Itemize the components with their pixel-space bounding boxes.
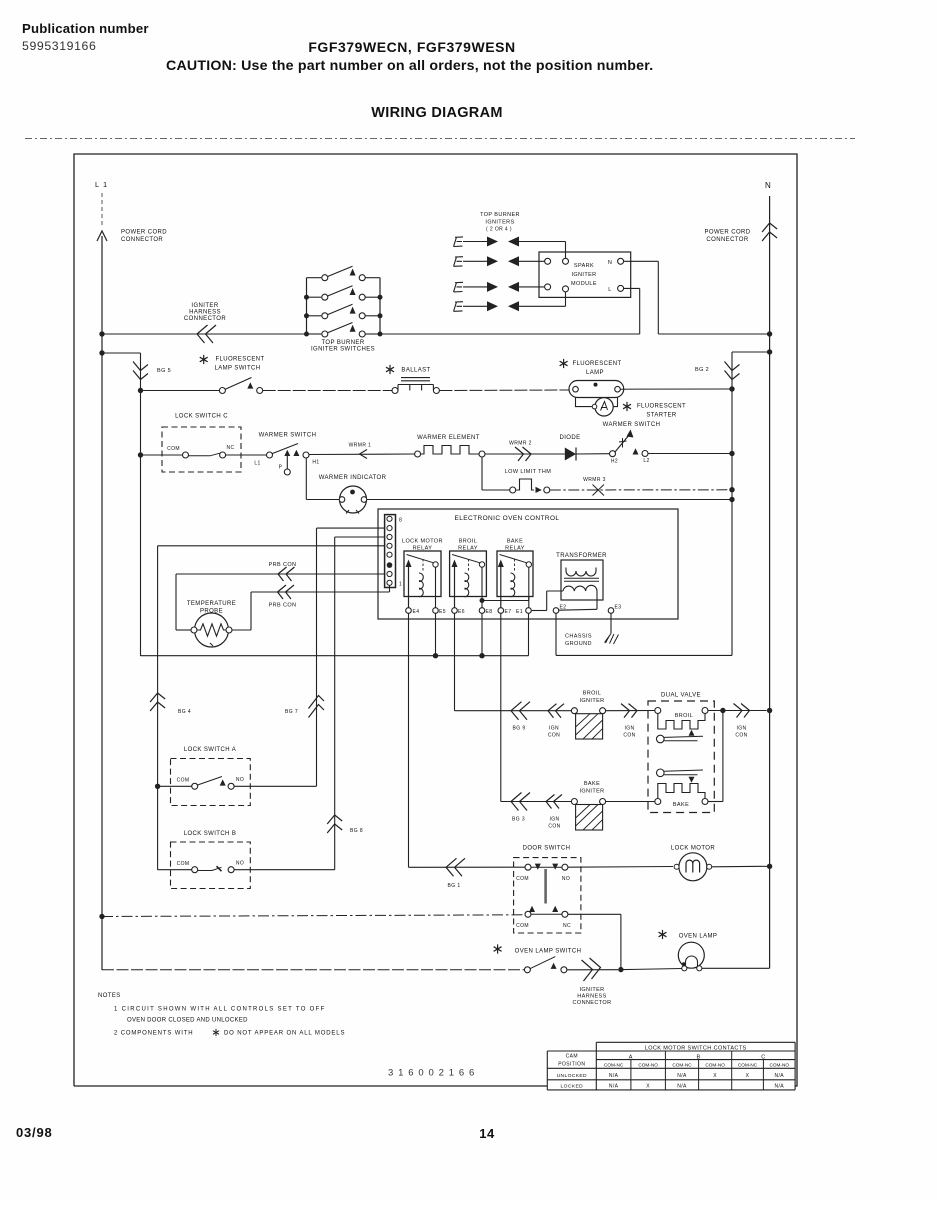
svg-text:03/98: 03/98 [16,1125,53,1140]
wire L1 drop dashed [101,193,103,228]
svg-text:DUAL VALVE: DUAL VALVE [661,693,701,699]
wire rail to lock switch A COM [158,785,192,787]
wire transformer to E2 [596,591,598,609]
svg-text:WRMR 3: WRMR 3 [583,477,606,483]
lock switch A dashed box [171,759,251,806]
svg-text:POSITION: POSITION [558,1062,585,1068]
svg-text:BG 7: BG 7 [285,709,298,715]
svg-text:COM: COM [516,923,529,929]
svg-text:TEMPERATURE: TEMPERATURE [187,601,236,607]
terminal E4 [406,608,412,614]
svg-text:WARMER ELEMENT: WARMER ELEMENT [417,435,480,441]
wire L1 to door switch lower COM [102,915,525,917]
wire N vertical rail [769,196,771,968]
svg-text:P: P [279,465,283,471]
junction N x lock motor line [767,864,772,869]
wire ballast to fluorescent lamp [439,389,572,392]
svg-text:Publication number: Publication number [22,21,149,36]
svg-text:N/A: N/A [609,1084,619,1090]
wire diode to H2 [576,453,610,455]
svg-text:H1: H1 [312,460,319,466]
svg-text:TRANSFORMER: TRANSFORMER [556,553,607,559]
bake igniter element [571,799,605,831]
wire junction to oven lamp [624,969,682,970]
connector PRB CON 1 chevrons [278,567,295,581]
svg-text:OVEN LAMP: OVEN LAMP [679,934,718,940]
connector BG7 chevrons [309,696,325,718]
fluorescent starter loop [576,398,618,407]
wire BG5 vertical to lock switch C COM [141,454,183,456]
svg-text:E1: E1 [516,609,523,615]
wire door switch NO to lock motor [568,866,673,869]
junction N x broil valve line [767,708,772,713]
wire lock switch B NO to BG8 drop [234,869,335,871]
svg-text:LOCK MOTOR: LOCK MOTOR [402,539,443,545]
oven lamp asterisk [659,930,667,939]
igniter harness connector (top) chevrons [197,325,216,343]
fluorescent starter asterisk [623,402,631,411]
connector PRB CON 2 chevrons [278,585,295,599]
warmer switch L1 P H1 [254,444,319,476]
svg-text:CON: CON [623,733,635,739]
wire E7 to bake igniter line [500,613,502,801]
igniter electrode 2 [454,257,464,267]
wire broil igniter to valve [606,710,655,712]
connector IGN CON broil-right chevrons [621,704,637,718]
svg-text:E5: E5 [439,609,446,615]
door switch dashed box [514,858,581,933]
svg-text:WARMER INDICATOR: WARMER INDICATOR [319,475,387,481]
motor lock motor [674,853,712,881]
wire main line L1 to switch bank [102,333,307,335]
connector IGN CON right chevrons [734,704,750,718]
junction L1 x main line [99,331,104,336]
wire H1 down to warmer indicator [305,458,307,500]
svg-text:COM-NO: COM-NO [705,1063,725,1068]
svg-text:BG 1: BG 1 [448,883,461,889]
svg-text:IGNITER SWITCHES: IGNITER SWITCHES [311,347,375,353]
junction BG2 x lamp line [729,386,734,391]
svg-text:H2: H2 [611,459,618,465]
svg-text:BROIL: BROIL [459,539,478,545]
igniter harness connector (bottom) chevrons [582,958,601,981]
igniter electrode 3 [454,282,464,292]
svg-text:OVEN DOOR CLOSED AND UNLOCKED: OVEN DOOR CLOSED AND UNLOCKED [127,1018,248,1024]
module terminal row4 inner [563,286,569,292]
svg-text:IGNITER: IGNITER [579,789,604,795]
module terminal row2 edge [545,258,551,264]
wire rail corner to lock switch B COM [158,869,192,871]
svg-text:L1: L1 [254,461,260,467]
spark igniter module box [539,252,631,297]
svg-text:IGN: IGN [549,817,559,823]
connector IGN CON broil-left chevrons [548,704,564,718]
svg-text:LOCKED: LOCKED [561,1084,584,1090]
svg-text:FLUORESCENT: FLUORESCENT [572,361,621,367]
svg-text:LOCK MOTOR SWITCH CONTACTS: LOCK MOTOR SWITCH CONTACTS [645,1045,747,1051]
door switch lower pole [516,906,571,929]
WRMR3 splice X mark [593,485,605,496]
svg-text:COM-NC: COM-NC [604,1063,624,1068]
lock switch B [177,861,245,873]
svg-text:BG 9: BG 9 [513,726,526,732]
wire module N to main line [624,260,659,262]
wire bake contact to E8 tie [482,600,529,602]
top burner igniter switch 4 [307,323,381,338]
svg-text:COM: COM [177,778,190,784]
lock switch A [177,777,245,790]
svg-text:BG 5: BG 5 [157,368,171,374]
svg-text:3 1 6 0 0 2 1 6 6: 3 1 6 0 0 2 1 6 6 [388,1068,475,1079]
svg-text:N/A: N/A [774,1073,784,1079]
wire E1 to transformer primary [531,610,546,612]
fluorescent lamp pin dot [594,383,598,387]
connector BG3 chevrons [511,793,530,811]
chassis ground symbol [605,634,619,645]
svg-text:E4: E4 [413,609,420,615]
svg-text:BALLAST: BALLAST [401,368,430,374]
svg-text:CAUTION: Use the part number: CAUTION: Use the part number on all orde… [166,58,653,74]
wire L2 to BG2 vertical [648,453,732,455]
junction switch bank rail [304,313,309,318]
svg-text:N/A: N/A [774,1084,784,1090]
terminal E3 [608,608,614,614]
svg-text:NO: NO [236,777,244,783]
svg-text:WARMER SWITCH: WARMER SWITCH [259,433,317,439]
junction E5 x bus [433,653,438,658]
wire igniter row3 to module terminal [519,286,544,288]
wire warmer element to diode WRMR2 [485,453,565,455]
igniter electrode 4 [454,302,464,312]
broil valve plunger [657,735,704,743]
wire igniter row2 to module terminal [519,260,544,262]
fluorescent starter [595,398,613,416]
lamp oven lamp [678,942,704,971]
broil valve actuator arrow [689,730,695,736]
svg-text:14: 14 [479,1126,495,1141]
diagram border frame [74,154,797,1086]
svg-text:HARNESS: HARNESS [189,310,221,316]
bake valve terminals [655,799,661,805]
svg-text:BG 2: BG 2 [695,367,709,373]
EOC connector pin 1 [387,580,392,585]
wire oven lamp to N rail end [702,967,770,969]
junction E8 x bus [479,653,484,658]
svg-text:NC: NC [226,445,234,451]
wire broil valve to N with IGN CON [708,710,767,712]
svg-text:NO: NO [562,876,570,882]
svg-text:1: 1 [399,582,402,588]
igniter electrode 1 [454,237,464,247]
svg-text:TOP BURNER: TOP BURNER [480,212,520,218]
spark gap 4 [463,301,519,311]
connector BG5 chevrons [133,362,148,380]
svg-text:BAKE: BAKE [673,802,689,808]
relay lock motor K1 box [404,551,441,597]
transformer windings [566,568,596,577]
svg-text:DIODE: DIODE [559,435,580,441]
svg-text:E8: E8 [486,609,493,615]
wire E1 down to bus end [528,613,530,655]
svg-text:HARNESS: HARNESS [577,994,606,1000]
terminal E6 [452,608,458,614]
svg-text:WIRING DIAGRAM: WIRING DIAGRAM [371,105,502,121]
svg-text:CONNECTOR: CONNECTOR [184,316,226,322]
EOC connector pin 5 [387,543,392,548]
wire pin6 to BG8 drop [335,536,385,538]
svg-text:CONNECTOR: CONNECTOR [573,1000,612,1006]
svg-text:DO NOT APPEAR ON ALL MODELS: DO NOT APPEAR ON ALL MODELS [224,1031,345,1037]
svg-text:X: X [646,1084,650,1090]
junction valve tie [720,708,725,713]
junction broil/bake contact tie [480,598,485,603]
svg-text:COM: COM [177,861,190,867]
wire pin7 to BG7 drop [317,527,385,529]
wire module L to main line [624,287,640,289]
spark gap 1 [463,237,519,247]
wire E7 corner to bake circuit [501,801,572,803]
wire E6 corner to broil circuit [455,710,572,712]
svg-text:IGNITER: IGNITER [579,987,604,993]
svg-text:N/A: N/A [609,1073,619,1079]
ballast asterisk [386,365,394,374]
svg-text:LAMP SWITCH: LAMP SWITCH [215,366,261,372]
svg-text:COM-NC: COM-NC [738,1063,758,1068]
electronic oven control box [378,509,678,619]
junction BG5 x lamp switch line [138,388,143,393]
wire N to BG2 drop [732,351,770,353]
relay bake K3 box [497,551,533,597]
terminal E5 [433,608,439,614]
svg-text:LOW LIMIT THM: LOW LIMIT THM [505,469,552,475]
svg-text:SPARK: SPARK [574,263,594,269]
top burner igniter switch 2 [307,286,381,301]
svg-text:COM-NO: COM-NO [769,1063,789,1068]
junction lock rail x switch A [155,784,160,789]
wire E2 to BG2 vertical via bottom [555,613,557,655]
warmer switch H2 L2 [610,430,650,465]
wire bake valve up to broil line [708,801,723,803]
svg-text:PRB CON: PRB CON [269,603,297,609]
solenoid bake valve coil [658,784,705,799]
svg-text:IGN: IGN [549,726,559,732]
svg-text:PRB CON: PRB CON [269,562,297,568]
broil igniter element [571,708,605,739]
transformer box [561,560,603,600]
svg-text:FLUORESCENT: FLUORESCENT [215,357,264,363]
svg-text:OVEN LAMP SWITCH: OVEN LAMP SWITCH [515,949,582,955]
lock switch B dashed box [171,842,251,889]
junction BG2 x warmer indicator line [729,497,734,502]
door switch upper pole [516,864,570,882]
wire E3 to chassis ground [610,613,612,633]
terminal E7 [498,608,504,614]
relay broil K2 contacts and coil [452,555,485,608]
svg-text:A: A [629,1054,633,1060]
wire lamp to BG2 vertical [620,388,732,390]
svg-text:COM: COM [516,876,529,882]
connector BG9 chevrons [511,702,530,720]
power cord connector (L1) arrow [97,231,107,241]
module terminal row3 edge [545,284,551,290]
junction BG2 x WRMR3 line [729,487,734,492]
connector BG8 chevrons [327,815,342,833]
svg-text:FLUORESCENT: FLUORESCENT [637,404,686,410]
bus wire y=655.7 [141,655,529,657]
svg-text:ELECTRONIC OVEN CONTROL: ELECTRONIC OVEN CONTROL [455,515,560,522]
fluorescent lamp terminals [573,386,579,392]
svg-text:LOCK SWITCH C: LOCK SWITCH C [175,414,228,420]
svg-text:5995319166: 5995319166 [22,39,96,53]
relay bake K3 contacts and coil [498,555,532,608]
svg-text:NOTES: NOTES [98,993,121,999]
wire spark module N corner to N rail [658,333,769,335]
connector BG4 chevrons [150,693,165,711]
svg-text:CONNECTOR: CONNECTOR [121,237,163,243]
inductor ballast [392,378,439,394]
svg-text:N: N [608,260,612,266]
svg-text:NO: NO [236,861,244,867]
relay lock motor K1 contacts and coil [406,555,439,608]
solenoid broil valve coil [658,714,705,730]
oven lamp switch asterisk [494,944,502,953]
svg-text:FGF379WECN, FGF379WESN: FGF379WECN, FGF379WESN [308,39,515,55]
EOC connector strip [385,515,396,588]
resistor warmer element [415,446,485,458]
EOC connector pin 4 [387,552,392,557]
wire low limit to BG2 vertical WRMR3 [550,489,732,491]
terminal E8 [479,608,485,614]
wire igniter row4 to module bottom terminal [519,305,566,307]
svg-text:( 2 OR 4 ): ( 2 OR 4 ) [486,227,512,233]
wire switch to junction [567,969,618,971]
wire lock switch C NC to warmer switch L1 [226,454,267,456]
wire L1 vertical rail [101,236,103,970]
svg-text:IGNITERS: IGNITERS [485,220,514,226]
wire lamp switch to ballast [263,390,392,392]
svg-text:N/A: N/A [677,1073,687,1079]
svg-text:LOCK SWITCH A: LOCK SWITCH A [184,747,236,753]
connector BG1 chevrons [446,858,465,876]
wire E4 to door switch line [408,613,410,867]
top burner igniter switches rails [306,278,308,334]
relay broil K2 box [450,551,487,597]
svg-text:X: X [746,1073,750,1079]
bake valve plunger [657,769,704,777]
svg-text:2 COMPONENTS WITH: 2 COMPONENTS WITH [114,1031,193,1037]
wire to fluorescent lamp switch [141,390,220,392]
wire pin2 to probe PRB CON 1 [176,573,385,575]
junction BG2 x warmer L2 line [729,451,734,456]
svg-text:BG 8: BG 8 [350,828,363,834]
svg-text:MODULE: MODULE [571,281,597,287]
wire E5 to bus [435,613,437,655]
svg-text:N: N [765,181,771,190]
svg-text:E6: E6 [458,609,465,615]
wire E6 to broil igniter line [454,613,456,710]
resistor temperature probe [191,613,232,647]
wire bake igniter to valve [606,801,655,803]
diode [565,448,576,461]
svg-text:STARTER: STARTER [646,413,677,419]
EOC connector pin 8 [387,516,392,521]
junction L1 x door switch line [99,914,104,919]
svg-text:CON: CON [548,733,560,739]
svg-text:BAKE: BAKE [507,539,523,545]
svg-text:BROIL: BROIL [583,691,602,697]
svg-text:POWER CORD: POWER CORD [705,230,751,236]
svg-text:POWER CORD: POWER CORD [121,230,167,236]
wire door switch NC down to lamp line [568,913,621,915]
spark gap 2 [463,256,519,266]
svg-text:COM: COM [167,446,180,452]
svg-text:C: C [761,1054,765,1060]
wire H1 to warmer element with arrow WRMR1 [309,453,415,456]
terminal E1 [526,608,532,614]
svg-text:BAKE: BAKE [584,781,600,787]
spark gap 3 [463,282,519,292]
wire switch bank to spark module L corner [380,333,640,335]
wire E4 corner to door switch [409,866,526,868]
dual valve dashed box [648,701,714,813]
EOC connector pin 6 [387,534,392,539]
junction lamp line [618,967,623,972]
bake valve actuator arrow [689,777,695,783]
terminal E2 [553,608,559,614]
junction N x BG2 branch [767,349,772,354]
svg-text:L: L [608,287,611,293]
lock switch C [167,445,234,458]
svg-text:X: X [713,1073,717,1079]
table lock motor switch contacts [547,1042,795,1090]
oven lamp switch [524,957,567,973]
svg-text:UNLOCKED: UNLOCKED [557,1073,587,1079]
module terminal row1 inner [563,258,569,264]
svg-text:BG 4: BG 4 [178,709,191,715]
broil valve terminals [655,708,661,714]
svg-text:COM-NO: COM-NO [638,1063,658,1068]
svg-text:CON: CON [548,824,560,830]
svg-text:BROIL: BROIL [675,713,694,719]
connector IGN CON bake chevrons [546,795,562,809]
junction BG5 x lock switch C line [138,452,143,457]
svg-text:LOCK MOTOR: LOCK MOTOR [671,846,715,852]
svg-text:COM-NC: COM-NC [672,1063,692,1068]
svg-text:CON: CON [735,733,747,739]
svg-text:GROUND: GROUND [565,641,592,647]
top burner igniter switch 1 [307,266,381,281]
svg-text:L2: L2 [643,458,649,464]
junction L1 x BG5 branch [99,350,104,355]
junction switch bank rail [304,332,309,337]
svg-text:E7: E7 [505,609,512,615]
horizontal rule dashed [25,138,855,140]
svg-text:LAMP: LAMP [586,370,604,376]
fluorescent lamp asterisk [560,359,568,368]
svg-text:LOCK SWITCH B: LOCK SWITCH B [184,831,237,837]
svg-text:BG 3: BG 3 [512,817,525,823]
fluorescent lamp body [569,381,624,398]
wire pin5 to lock switch rail drop [158,545,385,547]
lamp warmer indicator [339,486,367,514]
svg-text:IGNITER: IGNITER [191,303,218,309]
svg-text:IGN: IGN [624,726,634,732]
svg-text:N/A: N/A [677,1084,687,1090]
wire igniter row1 to module top terminal [519,241,566,243]
fluorescent lamp switch [219,378,262,394]
wire E8 to bus [481,613,483,655]
svg-text:CHASSIS: CHASSIS [565,634,592,640]
